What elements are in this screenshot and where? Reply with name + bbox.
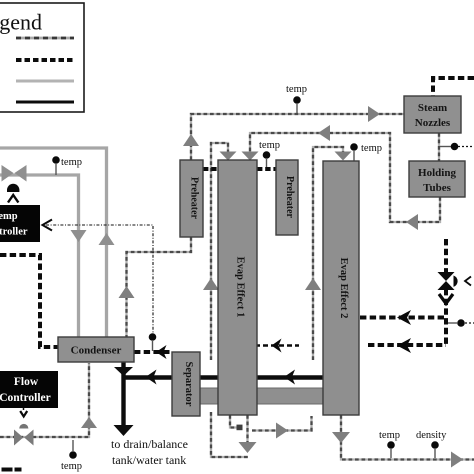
gray connector band separator to evaporators <box>200 388 323 404</box>
dashed vapor line Evap2 to Evap1 <box>255 344 299 347</box>
svg-text:Nozzles: Nozzles <box>415 117 451 129</box>
svg-text:Separator: Separator <box>183 362 194 407</box>
wire: Holding Tubes return to Evap Effect 1 <box>250 133 440 222</box>
svg-text:Legend: Legend <box>0 10 42 35</box>
box Preheater 2 <box>276 160 298 235</box>
legend box <box>0 3 84 112</box>
box Steam Nozzles <box>404 96 461 133</box>
arrow down into Evap2 top <box>335 152 352 161</box>
arrow down into Evap1 top right <box>242 152 259 161</box>
svg-text:temp: temp <box>379 430 400 441</box>
svg-text:Preheater: Preheater <box>189 177 200 220</box>
svg-text:Flow: Flow <box>14 376 39 388</box>
box Preheater 1 <box>180 160 203 237</box>
flow control valve actuator dome <box>19 424 28 429</box>
hatched steam segment Evap1 to Preheater2 <box>257 167 276 171</box>
control signal arrow up to valve CW <box>8 195 18 203</box>
box Flow Controller (black) <box>0 371 58 408</box>
legend line sample: solid black line <box>16 101 74 104</box>
temp sensor below Steam Nozzles <box>440 143 474 151</box>
wire: product line Preheater1 to Steam Nozzles <box>191 114 404 160</box>
hatched steam supply vertical with valve <box>444 239 448 345</box>
hatched steam line into Steam Nozzles from top right <box>433 78 474 96</box>
flow control valve (gray bowtie) <box>14 430 34 446</box>
wire: Evap2 product outlet line <box>341 415 474 460</box>
arrow left on Evap2-Evap1 vapor line <box>272 339 282 353</box>
arrow up into condenser top right <box>119 286 135 298</box>
temp sensor on outlet line <box>379 430 400 458</box>
arrow down into Evap1 top left <box>220 152 237 161</box>
arrow up on Evap1 recirculation riser <box>203 278 219 290</box>
arrow right on transfer line bottom <box>276 423 288 439</box>
arrow left into Evap2 steam inlet <box>397 310 411 325</box>
temp sensor above steam line at Evap1 right <box>259 140 280 168</box>
wire: Evap1 bottom small L outlet <box>230 415 243 430</box>
drain label <box>111 437 188 467</box>
svg-text:Holding: Holding <box>418 167 456 179</box>
hatched steam line into Evap2 <box>360 316 446 320</box>
wire: Preheater1 condensate to condenser <box>127 237 192 337</box>
thick black product line separator to Evap2 <box>200 375 323 379</box>
box Holding Tubes <box>409 161 465 197</box>
box Separator <box>172 352 200 416</box>
svg-text:to drain/balance: to drain/balance <box>111 437 188 451</box>
hatched vapor line left to condenser <box>0 255 58 347</box>
wire: Evap1 to Evap2 transfer line <box>252 147 343 431</box>
legend line sample: gray water line <box>16 80 74 83</box>
svg-text:Evap Effect 2: Evap Effect 2 <box>338 258 349 319</box>
svg-text:Condenser: Condenser <box>71 345 122 357</box>
arrow left on separator-condenser vapor line <box>156 345 167 359</box>
svg-text:Controller: Controller <box>0 392 51 404</box>
temp sensor on lower cooling line <box>61 440 82 472</box>
temp sensor above Evap2 <box>350 143 382 161</box>
steam valve actuator dome right <box>454 276 458 287</box>
arrow down below condenser <box>114 367 133 376</box>
density sensor on outlet line <box>416 430 447 458</box>
temp sensor on steam nozzle feed line <box>286 84 307 113</box>
wire: Steam Nozzles to Holding Tubes <box>438 133 440 161</box>
hatched stub bottom left corner <box>2 468 22 472</box>
svg-text:Evap Effect 1: Evap Effect 1 <box>235 257 246 318</box>
svg-text:Tubes: Tubes <box>423 182 451 194</box>
arrow right on product outlet <box>451 452 463 468</box>
legend line sample: dashed product line <box>16 37 74 40</box>
steam pressure sensor below valve <box>448 319 474 327</box>
wire: cooling water below through flow valve to condenser <box>0 363 89 437</box>
box Condenser <box>58 337 134 362</box>
svg-text:Steam: Steam <box>418 102 447 114</box>
svg-text:density: density <box>416 430 447 441</box>
arrow up into condenser bottom <box>81 417 97 428</box>
svg-text:Preheater: Preheater <box>284 176 295 219</box>
arrow down on Evap1 bottom outlet <box>239 442 257 453</box>
arrow up on cooling line into condenser <box>99 233 115 245</box>
svg-text:temp: temp <box>259 140 280 151</box>
open arrow down below steam valve <box>439 294 453 304</box>
arrow left on lower steam line <box>397 338 411 353</box>
hatched steam segment Preheater1 to Evap1 <box>203 167 218 171</box>
svg-text:tank/water tank: tank/water tank <box>112 453 186 467</box>
hatched steam line into Evap1 via behind Evap2 <box>368 343 446 347</box>
arrow up on transfer riser <box>305 278 321 290</box>
svg-text:temp: temp <box>361 143 382 154</box>
svg-text:temp: temp <box>61 461 82 472</box>
svg-text:Temp: Temp <box>0 211 18 222</box>
arrow left on holding tubes return <box>406 214 418 230</box>
big arrow down to drain <box>114 425 134 436</box>
valve CW actuator (black dome) <box>7 184 19 192</box>
temp sensor on cooling line <box>52 156 82 175</box>
box Temp Controller (black) <box>0 205 40 242</box>
box Evap Effect 1 <box>218 160 257 415</box>
arrow down on Evap2 outlet <box>332 432 350 443</box>
wire: gray cooling water top loop <box>0 148 107 337</box>
arrow right into Steam Nozzles <box>368 106 380 122</box>
arrow left on return line to evap1 <box>318 125 330 141</box>
wire: Evap1 recirculation loop <box>211 143 248 457</box>
sensor signal line to Temp Controller <box>43 220 157 352</box>
svg-text:Controller: Controller <box>0 227 28 238</box>
control signal chevron at steam valve <box>465 277 471 286</box>
wire: Evap1 bottom outlet to recirc <box>246 415 248 444</box>
arrow down on cooling line into condenser <box>71 230 87 242</box>
valve CW (gray bowtie) top-left <box>2 165 27 182</box>
svg-text:temp: temp <box>286 84 307 95</box>
legend line sample: hatched steam line <box>16 58 74 62</box>
svg-text:temp: temp <box>61 157 82 168</box>
hatched vapor line separator to condenser <box>134 350 172 354</box>
box Evap Effect 2 <box>323 161 359 415</box>
arrow left on product line to separator <box>284 370 295 385</box>
steam valve (black bowtie vertical) <box>438 272 455 290</box>
control signal from Flow Controller to valve <box>20 408 27 417</box>
arrow up above Preheater1 <box>183 134 199 146</box>
thick black drain line from condenser and separator <box>124 362 173 428</box>
arrow left toward drain tee <box>146 370 157 385</box>
